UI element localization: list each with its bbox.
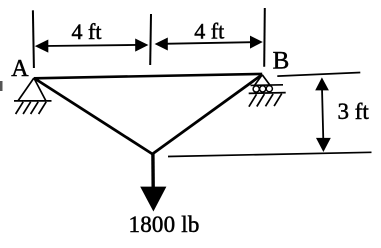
force arrowhead bbox=[140, 187, 166, 212]
bottom reference line bbox=[168, 152, 372, 156]
extension tick right bbox=[263, 8, 266, 67]
ground line at A bbox=[14, 100, 52, 102]
dimension line 4ft left bbox=[35, 39, 149, 53]
hatching at A bbox=[16, 102, 47, 114]
force arrow shaft bbox=[151, 153, 155, 189]
dimension line 4ft right bbox=[155, 36, 263, 51]
right diagonal member B-vertex bbox=[152, 75, 262, 155]
svg-text:4 ft: 4 ft bbox=[72, 19, 102, 44]
svg-text:3 ft: 3 ft bbox=[338, 99, 370, 124]
svg-text:4 ft: 4 ft bbox=[194, 19, 224, 44]
roller platform top line bbox=[251, 84, 284, 87]
top reference line (right of B) bbox=[277, 73, 360, 77]
roller support triangle at B bbox=[255, 75, 270, 86]
roller bottom line bbox=[249, 92, 286, 95]
roller circle 3 bbox=[266, 86, 272, 92]
hatching at B bbox=[249, 94, 282, 107]
roller circle 2 bbox=[260, 86, 266, 92]
svg-text:B: B bbox=[273, 48, 290, 75]
svg-text:1800 lb: 1800 lb bbox=[129, 212, 200, 237]
extension tick middle bbox=[149, 14, 152, 65]
scan smudge left edge bbox=[0, 81, 3, 91]
left diagonal member A-vertex bbox=[34, 78, 152, 154]
pin support triangle at A bbox=[18, 78, 46, 101]
extension tick left bbox=[33, 10, 34, 68]
3 ft dimension line bbox=[315, 77, 331, 152]
svg-text:A: A bbox=[11, 56, 29, 82]
top chord member AB bbox=[34, 74, 262, 78]
roller circle 1 bbox=[253, 86, 259, 92]
